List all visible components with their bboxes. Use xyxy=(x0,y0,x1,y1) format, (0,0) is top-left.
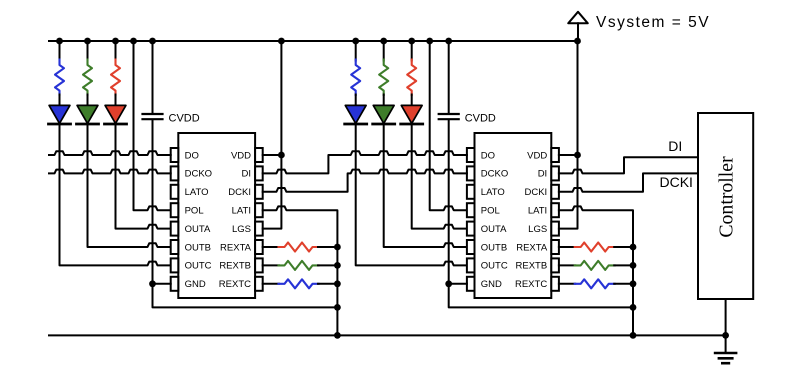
U2 pin box REXTA (right pin 11) xyxy=(551,240,559,254)
svg-text:Controller: Controller xyxy=(716,156,738,238)
svg-text:LGS: LGS xyxy=(232,224,251,235)
wire R21 to D21 anode xyxy=(411,95,413,108)
resistor R12 (green, series with D12) xyxy=(83,60,92,96)
junction REXTC / ground vertical xyxy=(630,280,637,287)
wire net U2.DO to U1.DI xyxy=(263,151,467,173)
wire U1 DCKO output stub (daisy-chain out) xyxy=(49,170,171,174)
U2 pin box OUTB (left pin 6) xyxy=(467,240,475,254)
junction VDD rail / U1 VDD vertical xyxy=(278,38,285,45)
capacitor C1 CVDD plates xyxy=(143,113,163,115)
LED D23 cathode bar xyxy=(345,123,367,126)
wire D22 anode from VDD rail xyxy=(383,41,385,61)
wire net U2.DCKO to U1.DCKI xyxy=(263,170,467,192)
junction VDD rail / R23 xyxy=(352,38,359,45)
junction VDD rail / Vsystem vertical xyxy=(574,38,581,45)
LED D13 cathode bar xyxy=(49,123,71,126)
LED D21 (red) xyxy=(401,105,422,123)
wire U2 VDD to rail vertical / LGS tie xyxy=(559,41,578,229)
junction REXTB / ground vertical xyxy=(334,262,341,269)
junction REXTA / ground vertical xyxy=(334,244,341,251)
svg-text:OUTB: OUTB xyxy=(481,242,507,253)
U1 pin box OUTA (left pin 5) xyxy=(171,222,179,236)
LED D22 cathode bar xyxy=(373,123,395,126)
junction U2 GND / C2 xyxy=(445,280,452,287)
U1 pin box LGS (right pin 12) xyxy=(255,222,263,236)
wire U1 POL tied to VDD rail (node A) xyxy=(134,41,171,210)
wire bottom ground rail xyxy=(49,334,726,336)
wire R23 to D23 anode xyxy=(355,95,357,108)
wire D23 cathode to U2 OUTC xyxy=(356,124,467,265)
wire U2 REXTB pin lead xyxy=(559,264,575,266)
LED D11 cathode bar xyxy=(105,123,127,126)
wire D11 anode from VDD rail xyxy=(115,41,117,61)
svg-text:OUTC: OUTC xyxy=(481,261,508,272)
U1 pin box VDD (right pin 16) xyxy=(255,148,263,162)
svg-text:POL: POL xyxy=(185,206,204,217)
svg-text:LATO: LATO xyxy=(185,187,209,198)
junction VDD rail / R21 xyxy=(408,38,415,45)
wire R1A to ground vertical xyxy=(318,246,337,248)
wire U1 REXTC pin lead xyxy=(263,283,279,285)
junction U2 VDD / vertical xyxy=(574,152,581,159)
wire U1 GND pin to C1 / under-IC ground route xyxy=(153,284,338,308)
wire controller ground lead xyxy=(725,299,727,353)
wire U2 POL tied to VDD rail (node B) xyxy=(430,41,467,210)
LED D12 cathode bar xyxy=(77,123,99,126)
svg-text:LATI: LATI xyxy=(232,206,251,217)
resistor R2B (REXTB, green) xyxy=(575,261,615,270)
wire C1 bottom plate to U1 GND xyxy=(152,120,154,284)
svg-text:OUTA: OUTA xyxy=(481,224,507,235)
wire D21 anode from VDD rail xyxy=(411,41,413,61)
LED D12 (green) xyxy=(77,105,98,123)
junction ground route / ground vertical xyxy=(630,304,637,311)
wire R2C to ground vertical xyxy=(614,283,633,285)
svg-text:DCKI: DCKI xyxy=(228,187,251,198)
wire D11 cathode to U1 OUTA xyxy=(116,124,171,229)
svg-text:Vsystem = 5V: Vsystem = 5V xyxy=(596,14,710,31)
svg-text:VDD: VDD xyxy=(527,150,547,161)
wire R1C to ground vertical xyxy=(318,283,337,285)
wire net DI (controller to U2.DI) xyxy=(559,157,698,173)
junction U1 VDD / vertical xyxy=(278,152,285,159)
junction ground vertical / bottom rail xyxy=(334,332,341,339)
svg-text:DCKO: DCKO xyxy=(481,169,508,180)
ground symbol xyxy=(715,352,736,355)
wire U2 LATI tied to ground (REXT return vertical) xyxy=(559,206,633,335)
svg-text:CVDD: CVDD xyxy=(169,112,200,124)
LED D23 (blue) xyxy=(345,105,366,123)
svg-text:REXTC: REXTC xyxy=(515,279,547,290)
U1 pin box DO (left pin 1) xyxy=(171,148,179,162)
junction bottom rail / controller ground xyxy=(722,332,729,339)
power symbol Vsystem (open arrow) xyxy=(568,12,588,23)
LED D22 (green) xyxy=(373,105,394,123)
svg-text:GND: GND xyxy=(185,279,206,290)
wire top VDD rail xyxy=(49,40,578,42)
wire U1 LATI tied to ground (REXT return vertical) xyxy=(263,206,338,335)
U1 pin box DCKI (right pin 14) xyxy=(255,185,263,199)
U1 pin box REXTA (right pin 11) xyxy=(255,240,263,254)
wire Vsystem arrow stem xyxy=(577,23,579,41)
capacitor C2 CVDD plates xyxy=(439,113,459,115)
svg-text:REXTB: REXTB xyxy=(219,261,251,272)
resistor R2A (REXTA, red) xyxy=(575,243,615,252)
svg-text:REXTA: REXTA xyxy=(516,242,548,253)
svg-text:DI: DI xyxy=(668,138,682,154)
wire U1 VDD to rail vertical / LGS tie xyxy=(263,41,282,229)
junction REXTA / ground vertical xyxy=(630,244,637,251)
U2 pin box OUTA (left pin 5) xyxy=(467,222,475,236)
svg-text:OUTC: OUTC xyxy=(185,261,212,272)
svg-text:DO: DO xyxy=(481,150,495,161)
wire D12 cathode to U1 OUTB xyxy=(88,124,171,247)
wire C2 top plate to VDD rail xyxy=(448,41,450,113)
U2 pin box REXTB (right pin 10) xyxy=(551,258,559,272)
junction REXTB / ground vertical xyxy=(630,262,637,269)
wire D13 anode from VDD rail xyxy=(59,41,61,61)
svg-text:VDD: VDD xyxy=(231,150,251,161)
svg-text:GND: GND xyxy=(481,279,502,290)
svg-text:OUTA: OUTA xyxy=(185,224,211,235)
U1 pin box POL (left pin 4) xyxy=(171,203,179,217)
U2 pin box DCKI (right pin 14) xyxy=(551,185,559,199)
wire D12 anode from VDD rail xyxy=(87,41,89,61)
junction VDD rail / C1 xyxy=(149,38,156,45)
svg-text:DI: DI xyxy=(538,169,548,180)
U1 pin box LATI (right pin 13) xyxy=(255,203,263,217)
svg-text:REXTC: REXTC xyxy=(219,279,251,290)
wire R2A to ground vertical xyxy=(614,246,633,248)
wire U2 VDD pin stub xyxy=(559,154,578,156)
wire U1 REXTB pin lead xyxy=(263,264,279,266)
svg-text:LATO: LATO xyxy=(481,187,505,198)
U2 pin box LATO (left pin 3) xyxy=(467,185,475,199)
U2 pin box GND (left pin 8) xyxy=(467,277,475,291)
resistor R1A (REXTA, red) xyxy=(279,243,319,252)
wire net DCKI (controller to U2.DCKI) xyxy=(559,173,698,191)
junction VDD rail / R13 xyxy=(56,38,63,45)
wire D21 cathode to U2 OUTA xyxy=(412,124,467,229)
wire R22 to D22 anode xyxy=(383,95,385,108)
svg-text:LATI: LATI xyxy=(528,206,547,217)
svg-text:POL: POL xyxy=(481,206,500,217)
svg-text:DCKI: DCKI xyxy=(660,174,693,190)
svg-text:REXTA: REXTA xyxy=(220,242,252,253)
junction ground vertical / bottom rail xyxy=(630,332,637,339)
resistor R13 (blue, series with D13) xyxy=(55,60,64,96)
wire R12 to D12 anode xyxy=(87,95,89,108)
resistor R22 (green, series with D22) xyxy=(379,60,388,96)
U2 pin box REXTC (right pin 9) xyxy=(551,277,559,291)
U2 pin box POL (left pin 4) xyxy=(467,203,475,217)
U2 pin box DCKO (left pin 2) xyxy=(467,166,475,180)
resistor R1B (REXTB, green) xyxy=(279,261,319,270)
junction VDD rail / R12 xyxy=(84,38,91,45)
wire D22 cathode to U2 OUTB xyxy=(384,124,467,247)
wire C1 top plate to VDD rail xyxy=(152,41,154,113)
svg-text:CVDD: CVDD xyxy=(465,112,496,124)
U2 pin box LGS (right pin 12) xyxy=(551,222,559,236)
junction VDD rail / U2 POL tie xyxy=(426,38,433,45)
resistor R2C (REXTC, blue) xyxy=(575,279,615,288)
junction VDD rail / R11 xyxy=(112,38,119,45)
svg-text:DO: DO xyxy=(185,150,199,161)
wire U2 REXTC pin lead xyxy=(559,283,575,285)
U2 pin box DO (left pin 1) xyxy=(467,148,475,162)
wire U1 VDD pin stub xyxy=(263,154,282,156)
U1 pin box OUTB (left pin 6) xyxy=(171,240,179,254)
wire U2 REXTA pin lead xyxy=(559,246,575,248)
U1 pin box DCKO (left pin 2) xyxy=(171,166,179,180)
U1 pin box OUTC (left pin 7) xyxy=(171,258,179,272)
U2 pin box DI (right pin 15) xyxy=(551,166,559,180)
U1 pin box REXTC (right pin 9) xyxy=(255,277,263,291)
junction VDD rail / U1 POL tie xyxy=(130,38,137,45)
junction ground route / ground vertical xyxy=(334,304,341,311)
wire R1B to ground vertical xyxy=(318,264,337,266)
svg-text:LGS: LGS xyxy=(528,224,547,235)
IC U2 body xyxy=(475,133,552,298)
wire U1 REXTA pin lead xyxy=(263,246,279,248)
svg-text:REXTB: REXTB xyxy=(516,261,548,272)
IC U1 body xyxy=(178,133,255,298)
svg-text:OUTB: OUTB xyxy=(185,242,211,253)
LED D13 (blue) xyxy=(49,105,70,123)
wire D13 cathode to U1 OUTC xyxy=(60,124,171,265)
controller U3 body xyxy=(698,113,753,299)
resistor R1C (REXTC, blue) xyxy=(279,279,319,288)
resistor R11 (red, series with D11) xyxy=(111,60,120,96)
wire R11 to D11 anode xyxy=(115,95,117,108)
U1 pin box LATO (left pin 3) xyxy=(171,185,179,199)
junction VDD rail / C2 xyxy=(445,38,452,45)
junction VDD rail / R22 xyxy=(380,38,387,45)
svg-text:DI: DI xyxy=(242,169,252,180)
wire U2 GND pin to C2 / under-IC ground route xyxy=(449,284,633,308)
LED D11 (red) xyxy=(105,105,126,123)
wire R2B to ground vertical xyxy=(614,264,633,266)
U2 pin box VDD (right pin 16) xyxy=(551,148,559,162)
junction U1 GND / C1 xyxy=(149,280,156,287)
junction REXTC / ground vertical xyxy=(334,280,341,287)
resistor R23 (blue, series with D23) xyxy=(351,60,360,96)
U2 pin box LATI (right pin 13) xyxy=(551,203,559,217)
LED D21 cathode bar xyxy=(401,123,423,126)
wire R13 to D13 anode xyxy=(59,95,61,108)
resistor R21 (red, series with D21) xyxy=(407,60,416,96)
svg-text:DCKO: DCKO xyxy=(185,169,212,180)
wire C2 bottom plate to U2 GND xyxy=(448,120,450,284)
U1 pin box DI (right pin 15) xyxy=(255,166,263,180)
svg-text:DCKI: DCKI xyxy=(524,187,547,198)
wire D23 anode from VDD rail xyxy=(355,41,357,61)
U2 pin box OUTC (left pin 7) xyxy=(467,258,475,272)
U1 pin box GND (left pin 8) xyxy=(171,277,179,291)
wire U1 DO output stub (daisy-chain out) xyxy=(49,151,171,155)
U1 pin box REXTB (right pin 10) xyxy=(255,258,263,272)
